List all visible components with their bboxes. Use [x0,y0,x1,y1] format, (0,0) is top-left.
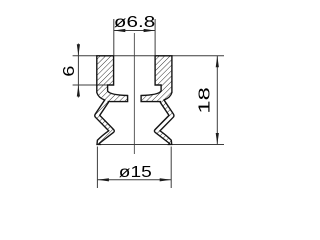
dim 6 line [77,44,79,98]
svg-text:6: 6 [61,66,78,77]
cup section right [141,56,174,145]
dim 18 line [216,56,218,145]
svg-text:ø6.8: ø6.8 [114,14,155,31]
dim dia6.8 extension right [154,19,156,55]
dim dia15 extension right [170,147,172,189]
cup section left [95,56,128,145]
svg-text:ø15: ø15 [119,164,152,181]
extension line y85 [73,84,114,86]
dim dia6.8 extension left [113,19,115,55]
dim dia15 extension left [96,147,98,189]
dim dia6.8 line [114,30,155,32]
rim line / bottom extension [97,144,224,146]
dim dia15 line [97,179,171,181]
svg-text:18: 18 [196,87,213,113]
centerline [133,33,135,154]
extension line top y56 [73,55,224,57]
